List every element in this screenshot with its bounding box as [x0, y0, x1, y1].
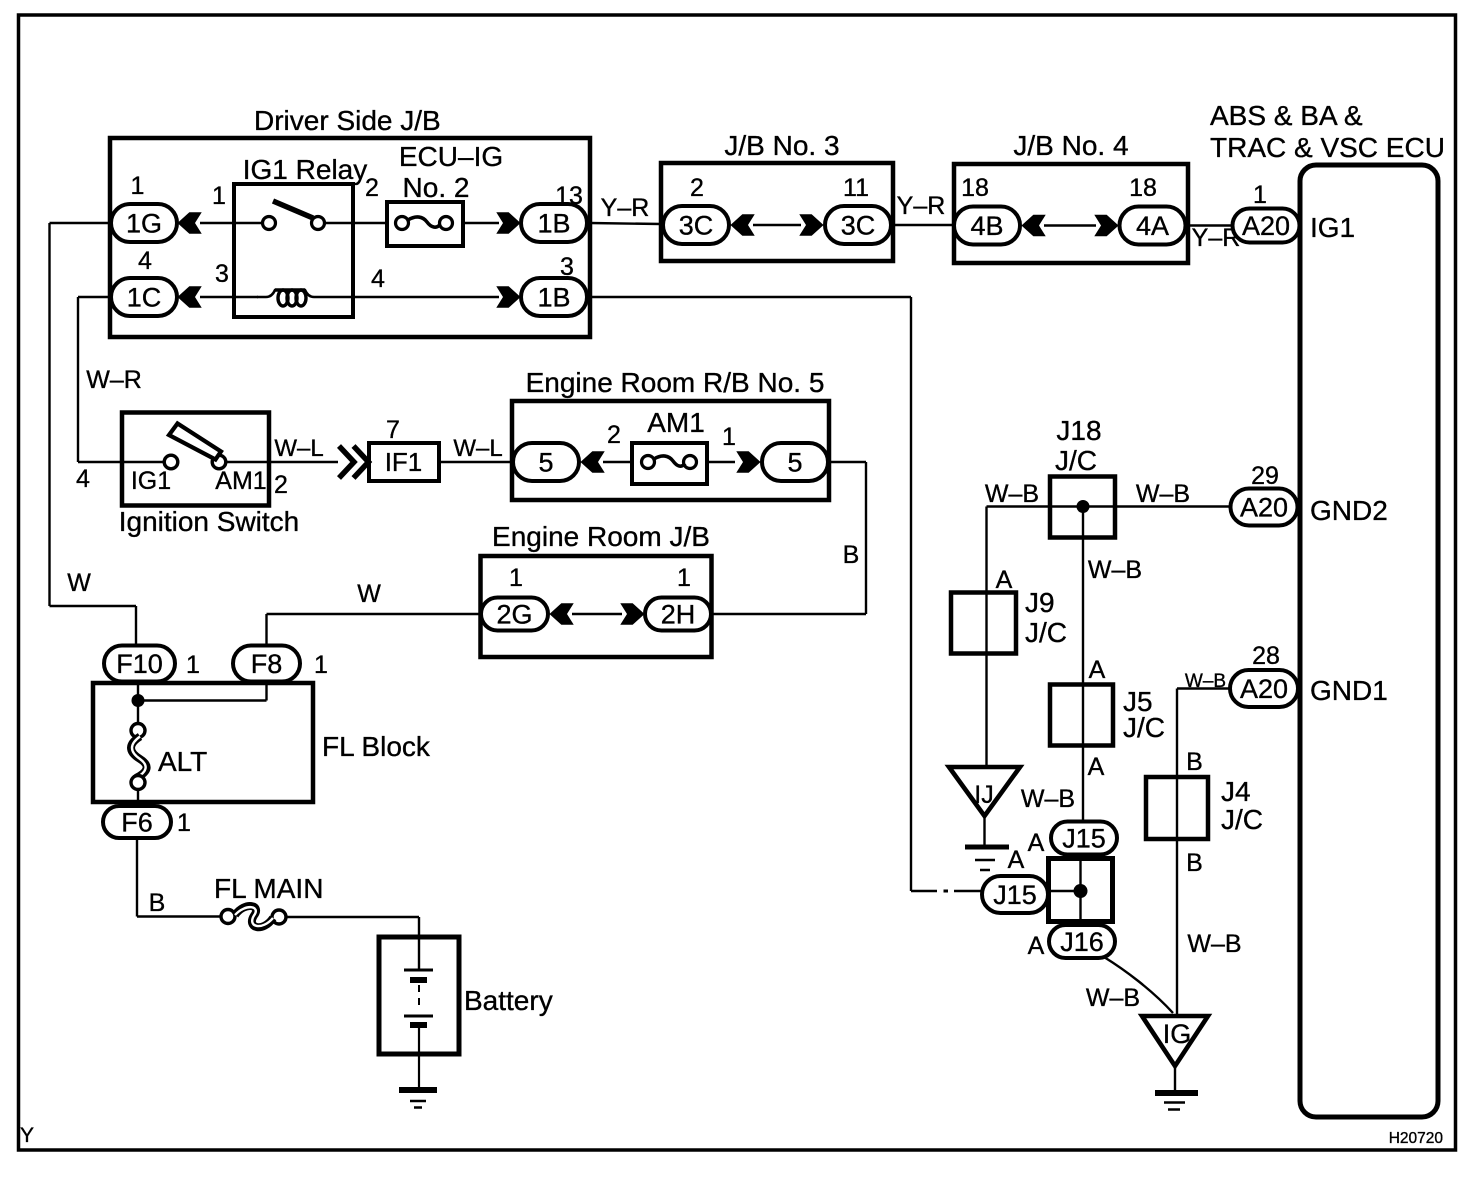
svg-text:2H: 2H [661, 600, 696, 630]
svg-text:ABS & BA &: ABS & BA & [1210, 100, 1363, 131]
svg-text:Battery: Battery [464, 985, 553, 1016]
connector 3C pin 11 [800, 174, 891, 244]
svg-text:IG1: IG1 [1310, 212, 1355, 243]
junction J5 J/C pin A [1050, 656, 1165, 781]
svg-text:No. 2: No. 2 [403, 172, 470, 203]
svg-text:2: 2 [365, 174, 379, 202]
fuse AM1 in R/B No.5 [603, 407, 736, 484]
wire AM1 to IF1, label W-L pin 2 [226, 435, 338, 499]
wire J/B No.3 to No.4, label Y-R [893, 192, 954, 225]
fuse ECU-IG No. 2 [325, 141, 503, 246]
svg-text:A20: A20 [1240, 674, 1288, 704]
svg-text:A: A [1028, 829, 1045, 857]
svg-text:AM1: AM1 [215, 467, 266, 495]
svg-text:J18: J18 [1056, 415, 1101, 446]
connector 3C pin 2 [663, 174, 754, 244]
wire J18 to A20 GND2, labels W-B [985, 480, 1233, 508]
svg-text:J15: J15 [1062, 824, 1106, 854]
connector 1B pin 3 [521, 253, 587, 316]
svg-text:3: 3 [215, 260, 229, 288]
svg-text:5: 5 [538, 447, 553, 477]
svg-text:IG1 Relay: IG1 Relay [243, 154, 368, 185]
svg-text:4B: 4B [970, 211, 1003, 241]
battery Battery [379, 937, 553, 1090]
ECU title ABS & BA & TRAC & VSC ECU [1210, 100, 1445, 163]
svg-text:F8: F8 [251, 649, 283, 679]
svg-text:W–B: W–B [1187, 930, 1241, 958]
svg-text:B: B [1186, 748, 1203, 776]
svg-text:28: 28 [1252, 642, 1280, 670]
block FL Block [93, 683, 431, 802]
svg-text:A: A [1088, 753, 1105, 781]
svg-text:GND2: GND2 [1310, 495, 1388, 526]
junction J4 J/C pin B [1146, 748, 1263, 877]
junction block J/B No. 3 [661, 130, 893, 261]
connector 2G pin 1 [481, 564, 573, 631]
wire 5 right down to 2H, label B [712, 462, 866, 614]
fusible link FL MAIN [214, 873, 323, 927]
svg-text:11: 11 [843, 174, 869, 202]
svg-text:W–L: W–L [274, 435, 323, 462]
svg-text:Ignition Switch: Ignition Switch [119, 506, 300, 537]
junction block: Driver Side J/B [110, 105, 590, 337]
inline connector double chevron [339, 446, 369, 478]
junction J18 J/C [987, 415, 1116, 538]
junction J9 J/C pin A [951, 566, 1067, 654]
svg-text:J15: J15 [993, 880, 1037, 910]
junction block Engine Room J/B [481, 521, 712, 657]
svg-text:1C: 1C [127, 282, 162, 312]
wire J18 left branch down through J9 to IJ ground, label W-B [985, 507, 987, 768]
connector F8 pin 1 [233, 646, 328, 682]
svg-text:J/C: J/C [1221, 804, 1263, 835]
connector 1G pin 1 [111, 172, 177, 242]
svg-text:Engine Room J/B: Engine Room J/B [492, 521, 710, 552]
svg-text:W–L: W–L [453, 435, 502, 462]
wire inside J/B No.3 [753, 224, 801, 226]
svg-text:4A: 4A [1136, 211, 1169, 241]
svg-text:A: A [1008, 846, 1025, 874]
wire 2G to F8, label W [267, 580, 482, 646]
svg-text:J/B No. 4: J/B No. 4 [1013, 130, 1128, 161]
relay coil [257, 290, 353, 306]
wire 4A to ECU A20, label Y-R [1186, 224, 1240, 252]
wire FL MAIN to battery [286, 917, 419, 937]
connector 2H pin 1 [621, 564, 711, 631]
svg-text:FL MAIN: FL MAIN [214, 873, 323, 904]
svg-text:1: 1 [509, 564, 523, 592]
svg-text:Engine Room R/B No. 5: Engine Room R/B No. 5 [526, 367, 825, 398]
svg-text:FL Block: FL Block [322, 731, 431, 762]
svg-text:AM1: AM1 [647, 407, 705, 438]
svg-text:2G: 2G [496, 600, 532, 630]
svg-text:B: B [149, 889, 166, 917]
svg-text:B: B [843, 541, 860, 569]
ground IJ [949, 767, 1075, 870]
ECU block ABS & BA & TRAC & VSC ECU [1300, 165, 1438, 1117]
wire 1C to relay coil with arrow [178, 287, 258, 308]
svg-text:F6: F6 [121, 808, 153, 838]
svg-text:TRAC & VSC ECU: TRAC & VSC ECU [1210, 132, 1445, 163]
wire fuse to 1B with arrow [463, 213, 520, 234]
wire 1G to relay with arrow [178, 213, 262, 234]
svg-text:1: 1 [212, 182, 226, 210]
svg-text:2: 2 [607, 421, 621, 449]
connector A20 pin 1, node IG1 [1233, 181, 1356, 243]
fusible link IF1 pin 7 [369, 416, 439, 481]
svg-text:IJ: IJ [974, 781, 993, 809]
svg-text:W: W [67, 569, 91, 597]
svg-text:3C: 3C [679, 210, 714, 240]
wire J16 diagonal to IG ground, label W-B [1086, 957, 1173, 1013]
wire IF1 to R/B No.5, label W-L [439, 435, 513, 462]
svg-text:Driver Side J/B: Driver Side J/B [254, 105, 441, 136]
connector A20 pin 28, node GND1, label W-B [1185, 642, 1388, 707]
svg-text:Y: Y [20, 1124, 34, 1147]
svg-text:18: 18 [1129, 174, 1157, 202]
svg-text:Y–R: Y–R [601, 194, 650, 222]
wire relay coil to 1B pin 3 with arrow [353, 287, 520, 308]
node junction under F10 [132, 681, 267, 724]
svg-text:4: 4 [371, 265, 385, 293]
svg-text:J4: J4 [1221, 776, 1251, 807]
wire J18 dot down through J5 to J15, label W-B [1083, 507, 1142, 823]
connector 5 right [737, 443, 828, 481]
svg-text:5: 5 [787, 447, 802, 477]
svg-text:J/C: J/C [1123, 712, 1165, 743]
svg-text:1: 1 [722, 423, 736, 451]
svg-text:W–R: W–R [86, 366, 142, 394]
wire 1C to ignition switch, label W-R [76, 297, 164, 493]
svg-text:W–B: W–B [1021, 785, 1075, 813]
connector J16 pin A [1028, 925, 1115, 960]
svg-text:J/C: J/C [1055, 445, 1097, 476]
connector 1C pin 4 [111, 247, 177, 316]
svg-text:1B: 1B [537, 282, 570, 312]
svg-text:GND1: GND1 [1310, 675, 1388, 706]
svg-text:J16: J16 [1060, 927, 1104, 957]
svg-text:A20: A20 [1242, 211, 1290, 241]
svg-text:W: W [357, 580, 381, 608]
svg-text:A: A [1028, 932, 1045, 960]
junction block Engine Room R/B No. 5 [512, 367, 829, 500]
svg-text:W–B: W–B [1136, 480, 1190, 508]
connector 5 left [513, 443, 604, 481]
wire inside Engine Room J/B [572, 613, 622, 615]
svg-text:IG1: IG1 [131, 467, 171, 495]
svg-text:J/C: J/C [1025, 617, 1067, 648]
svg-text:1B: 1B [537, 208, 570, 238]
svg-text:IG: IG [1163, 1019, 1192, 1049]
svg-text:ALT: ALT [158, 746, 207, 777]
wire F6 to FL MAIN, label B [137, 838, 222, 917]
wire inside J/B No.4 [1044, 224, 1096, 226]
connector 4A pin 18 [1095, 174, 1186, 245]
connector F6 pin 1 [103, 806, 191, 838]
svg-text:4: 4 [138, 247, 152, 275]
wire 1G down to F10, label W [50, 223, 137, 646]
junction J15 box with node [1048, 854, 1113, 922]
svg-text:1: 1 [677, 564, 691, 592]
connector J15 top pin A [1028, 822, 1117, 858]
connector J15 left pin A [982, 846, 1048, 913]
svg-text:2: 2 [690, 174, 704, 202]
svg-text:H20720: H20720 [1389, 1130, 1444, 1147]
connector F10 pin 1 [104, 646, 200, 682]
svg-text:W–B: W–B [1086, 984, 1140, 1012]
svg-text:1: 1 [314, 651, 328, 679]
junction block J/B No. 4 [954, 130, 1188, 263]
relay IG1 Relay [212, 154, 385, 317]
ground below battery [399, 1090, 437, 1108]
svg-text:2: 2 [274, 471, 288, 499]
svg-text:1G: 1G [126, 208, 162, 238]
svg-text:W–B: W–B [1088, 556, 1142, 584]
svg-text:Y–R: Y–R [897, 192, 946, 220]
svg-text:J9: J9 [1025, 587, 1055, 618]
svg-text:F10: F10 [116, 649, 163, 679]
svg-text:W–B: W–B [985, 480, 1039, 508]
svg-text:B: B [1186, 849, 1203, 877]
svg-text:A20: A20 [1240, 493, 1288, 523]
svg-text:3C: 3C [841, 210, 876, 240]
svg-text:A: A [996, 566, 1013, 594]
wire 1B pin3 long run to J15 [590, 297, 982, 891]
connector 4B pin 18 [954, 174, 1045, 245]
connector 1B pin 13 [521, 182, 587, 242]
switch Ignition Switch [119, 413, 300, 538]
svg-text:7: 7 [386, 416, 400, 444]
svg-text:1: 1 [177, 809, 191, 837]
svg-text:4: 4 [76, 465, 90, 493]
ground IG [1142, 1016, 1208, 1110]
svg-text:J/B No. 3: J/B No. 3 [724, 130, 839, 161]
connector A20 pin 29, node GND2 [1231, 462, 1388, 526]
svg-text:A: A [1089, 656, 1106, 684]
svg-text:1: 1 [186, 651, 200, 679]
svg-text:18: 18 [961, 174, 989, 202]
wire 1B to J/B No.3, label Y-R [590, 194, 661, 224]
alternator ALT fusible link [131, 724, 207, 807]
svg-text:1: 1 [1253, 181, 1267, 209]
wire A20 GND1 down through J4 to IG ground, label W-B [1177, 689, 1242, 1017]
svg-text:ECU–IG: ECU–IG [399, 141, 503, 172]
svg-text:1: 1 [131, 172, 145, 200]
svg-text:29: 29 [1251, 462, 1279, 490]
svg-text:IF1: IF1 [385, 447, 423, 477]
